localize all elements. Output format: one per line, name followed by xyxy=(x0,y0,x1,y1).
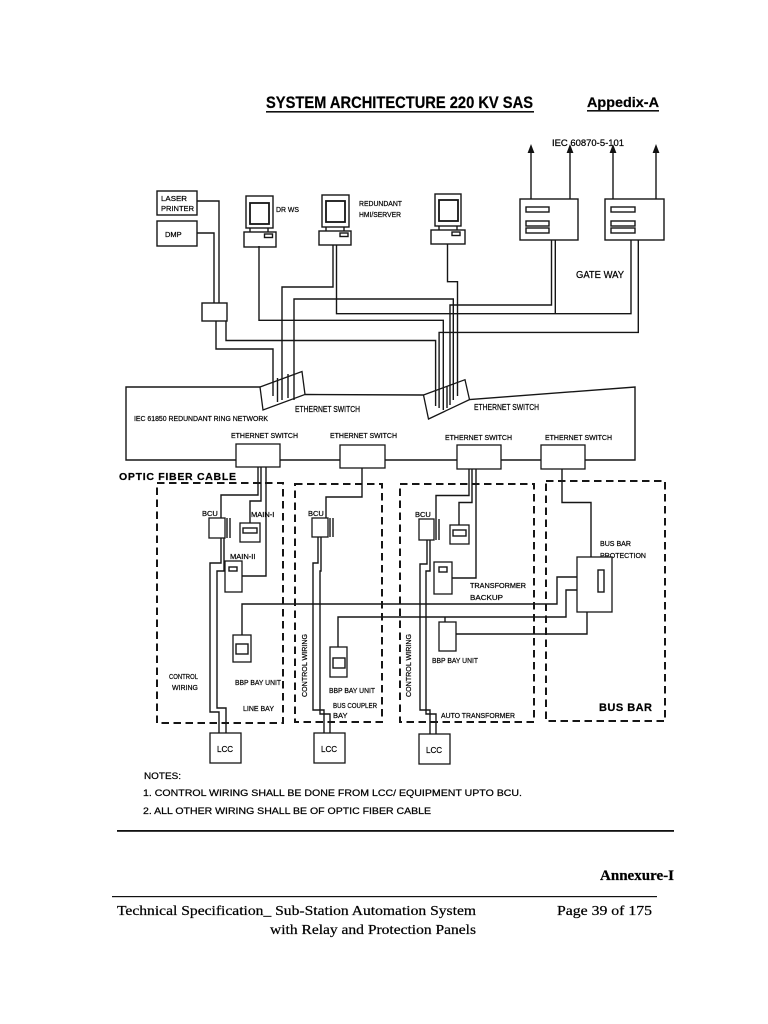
svg-text:OPTIC FIBER CABLE: OPTIC FIBER CABLE xyxy=(119,471,236,483)
bay box line bay xyxy=(157,483,283,723)
control wiring bay2 left xyxy=(313,537,324,733)
svg-text:HMI/SERVER: HMI/SERVER xyxy=(359,210,402,219)
svg-text:DMP: DMP xyxy=(165,230,182,239)
label BUS BAR PROTECTION xyxy=(600,539,646,560)
BCU 1 box xyxy=(209,518,230,538)
svg-text:MAIN-I: MAIN-I xyxy=(251,510,274,519)
svg-text:ETHERNET SWITCH: ETHERNET SWITCH xyxy=(445,433,512,442)
wire gateway1 left to switch B xyxy=(450,240,552,405)
svg-text:CONTROL: CONTROL xyxy=(169,672,198,681)
svg-text:LASER: LASER xyxy=(161,194,188,203)
workstation DR WS xyxy=(244,196,276,247)
wire switch3 to BCU3 xyxy=(436,469,469,519)
svg-text:IEC 61850 REDUNDANT RING NETWO: IEC 61850 REDUNDANT RING NETWORK xyxy=(134,414,268,423)
ethernet switch rect 2 xyxy=(340,445,385,468)
svg-text:BCU: BCU xyxy=(202,509,218,518)
workstation redundant HMI/server xyxy=(319,195,351,245)
bus line B xyxy=(338,590,577,647)
ethernet switch rect 4 xyxy=(541,445,585,469)
svg-text:LCC: LCC xyxy=(426,746,442,755)
svg-text:BUS BAR: BUS BAR xyxy=(599,702,652,714)
wire switch1 to main-II xyxy=(242,467,266,576)
arrow up 3 xyxy=(610,144,617,199)
BCU 2 box xyxy=(312,518,333,537)
wire HMI server to switch A xyxy=(282,245,333,400)
BBP bay unit 1 box xyxy=(233,635,251,662)
gateway unit 1 xyxy=(520,199,578,240)
ethernet switch parallelogram A xyxy=(260,372,305,411)
label BUS COUPLER BAY xyxy=(333,701,377,720)
gateway unit 2 xyxy=(605,199,664,240)
svg-text:MAIN-II: MAIN-II xyxy=(230,552,255,561)
svg-text:DR WS: DR WS xyxy=(276,205,299,214)
LCC box 3 xyxy=(419,734,450,764)
svg-text:ETHERNET SWITCH: ETHERNET SWITCH xyxy=(231,431,298,440)
svg-text:ETHERNET SWITCH: ETHERNET SWITCH xyxy=(295,405,360,414)
svg-text:AUTO TRANSFORMER: AUTO TRANSFORMER xyxy=(441,711,516,720)
transformer backup box xyxy=(434,562,452,594)
bay box auto transformer xyxy=(400,484,534,722)
svg-text:BUS COUPLER: BUS COUPLER xyxy=(333,701,377,710)
LCC box 2 xyxy=(314,733,345,763)
bus bar protection box xyxy=(577,557,612,612)
svg-text:Technical Specification_ Sub-S: Technical Specification_ Sub-Station Aut… xyxy=(117,903,477,918)
main-II box xyxy=(225,561,242,592)
svg-text:BAY: BAY xyxy=(333,711,347,720)
svg-text:BBP BAY UNIT: BBP BAY UNIT xyxy=(329,686,375,695)
title Appedix-A xyxy=(587,94,659,112)
label TRANSFORMER BACKUP xyxy=(470,581,527,602)
svg-text:BCU: BCU xyxy=(415,510,431,519)
svg-text:CONTROL WIRING: CONTROL WIRING xyxy=(404,634,413,697)
wire switch3 to transformer main xyxy=(459,469,472,525)
svg-text:REDUNDANT: REDUNDANT xyxy=(359,199,402,208)
bus line C xyxy=(456,612,587,634)
LCC box 1 xyxy=(210,733,241,763)
control wiring bay2 right xyxy=(320,537,330,733)
bus line A xyxy=(242,577,577,635)
svg-text:Page 39 of 175: Page 39 of 175 xyxy=(557,903,652,918)
arrow up 4 xyxy=(653,144,660,199)
wire DR WS to gateway 2 xyxy=(259,246,443,410)
svg-text:LCC: LCC xyxy=(321,745,337,754)
separator line lower xyxy=(112,896,657,897)
svg-text:TRANSFORMER: TRANSFORMER xyxy=(470,581,527,590)
BCU 3 box xyxy=(419,519,439,540)
workstation 3 xyxy=(431,194,465,244)
wire junction to ethernet switch B xyxy=(226,321,436,406)
laser printer box xyxy=(157,191,197,215)
ethernet switch parallelogram B xyxy=(424,380,470,419)
svg-text:1. CONTROL WIRING SHALL BE DON: 1. CONTROL WIRING SHALL BE DONE FROM LCC… xyxy=(143,788,522,798)
svg-text:BCU: BCU xyxy=(308,509,324,518)
wire switch1 to main-I xyxy=(250,467,261,523)
svg-text:BBP BAY UNIT: BBP BAY UNIT xyxy=(432,656,478,665)
bay box bus coupler bay xyxy=(295,484,382,722)
wire HMI server to gateway 2 xyxy=(337,240,632,314)
main-I box xyxy=(240,523,260,542)
svg-text:ETHERNET SWITCH: ETHERNET SWITCH xyxy=(330,431,397,440)
svg-text:WIRING: WIRING xyxy=(172,683,198,692)
bay box bus bar xyxy=(546,481,665,721)
wire switch4 to bus bar protection xyxy=(562,469,591,557)
svg-text:GATE WAY: GATE WAY xyxy=(576,270,624,281)
ethernet switch rect 3 xyxy=(457,445,501,469)
wire laser printer to junction xyxy=(197,201,219,303)
transformer main box xyxy=(450,525,469,544)
BBP bay unit 3 box xyxy=(439,622,456,651)
label control wiring bay1 xyxy=(169,672,198,692)
control wiring bay3 left xyxy=(420,540,430,734)
junction box xyxy=(202,303,227,321)
svg-text:LINE BAY: LINE BAY xyxy=(243,704,274,713)
svg-text:ETHERNET SWITCH: ETHERNET SWITCH xyxy=(545,433,612,442)
svg-text:PRINTER: PRINTER xyxy=(161,204,195,213)
BBP bay unit 2 box xyxy=(330,647,347,677)
separator line upper xyxy=(117,830,674,832)
svg-text:2. ALL OTHER WIRING SHALL BE O: 2. ALL OTHER WIRING SHALL BE OF OPTIC FI… xyxy=(143,806,431,816)
svg-text:Appedix-A: Appedix-A xyxy=(587,94,659,110)
ethernet switch rect 1 xyxy=(236,444,280,467)
ring link between parallelograms xyxy=(305,394,424,397)
wire ring link switch A to switch B xyxy=(294,299,453,400)
wire BBP3 to bus B xyxy=(444,617,446,622)
control wiring bay1 right xyxy=(217,538,226,733)
arrow up 1 xyxy=(528,144,535,199)
wire switch1 to BCU1 xyxy=(221,467,258,518)
svg-text:BBP BAY UNIT: BBP BAY UNIT xyxy=(235,678,281,687)
wire gateway1 right drop xyxy=(554,240,556,314)
label REDUNDANT HMI/SERVER xyxy=(359,199,402,219)
wire DMP to junction xyxy=(197,233,214,303)
wire gateway2 right to switch B xyxy=(439,240,638,408)
control wiring bay3 right xyxy=(426,540,436,734)
svg-text:BUS BAR: BUS BAR xyxy=(600,539,632,548)
DMP box xyxy=(157,221,197,246)
svg-text:NOTES:: NOTES: xyxy=(144,771,181,781)
svg-text:BACKUP: BACKUP xyxy=(470,593,503,602)
svg-text:LCC: LCC xyxy=(217,745,233,754)
wire switch2 to BCU2 xyxy=(326,468,362,518)
wire junction to ethernet switch A xyxy=(216,321,273,396)
svg-text:CONTROL WIRING: CONTROL WIRING xyxy=(300,634,309,697)
wire switch3 to transformer backup xyxy=(452,469,476,578)
svg-text:with Relay and Protection Pane: with Relay and Protection Panels xyxy=(270,922,476,937)
svg-text:Annexure-I: Annexure-I xyxy=(600,868,674,884)
arrow up 2 xyxy=(567,144,574,199)
control wiring bay1 left xyxy=(210,538,221,733)
wire workstation 3 to switch B xyxy=(448,244,458,396)
svg-text:ETHERNET SWITCH: ETHERNET SWITCH xyxy=(474,403,539,412)
title SYSTEM ARCHITECTURE 220 KV SAS xyxy=(266,94,534,113)
ring network box xyxy=(126,387,635,460)
svg-text:SYSTEM ARCHITECTURE 220 KV SAS: SYSTEM ARCHITECTURE 220 KV SAS xyxy=(266,94,533,112)
